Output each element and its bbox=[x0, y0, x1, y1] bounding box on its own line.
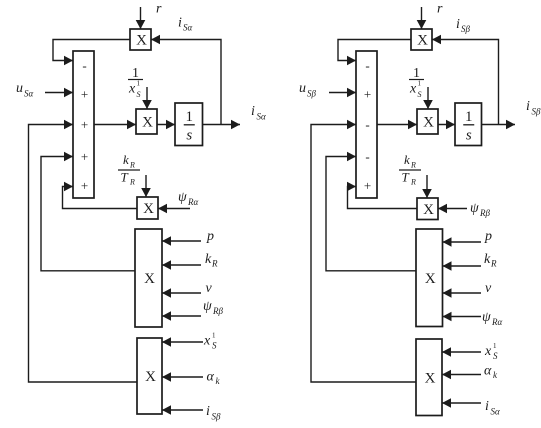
wire ψ_Rα into X4 (right) bbox=[443, 312, 482, 322]
svg-text:+: + bbox=[81, 87, 88, 102]
svg-text:Sα: Sα bbox=[257, 112, 267, 122]
svg-text:ψ: ψ bbox=[482, 310, 491, 325]
wire p into X4 (left) bbox=[162, 236, 201, 246]
svg-text:X: X bbox=[417, 33, 428, 49]
svg-text:+: + bbox=[364, 87, 371, 102]
svg-text:ν: ν bbox=[485, 281, 492, 296]
svg-text:i: i bbox=[485, 399, 489, 414]
wire X2 to integrator (left) bbox=[157, 120, 175, 130]
svg-text:u: u bbox=[299, 81, 306, 96]
svg-text:r: r bbox=[156, 2, 162, 17]
label ψ_Rα (right) bbox=[482, 310, 502, 327]
svg-text:Rβ: Rβ bbox=[479, 208, 490, 218]
wire X4 output to S1 input 4 (left) bbox=[41, 152, 135, 271]
summing block S1 (right) bbox=[356, 51, 377, 198]
label x_S' (right) bbox=[484, 342, 498, 361]
label 1/x_S' (left) bbox=[128, 66, 143, 99]
wire α_k into X5 (left) bbox=[162, 372, 203, 382]
integrator 1/s (left) bbox=[175, 103, 203, 146]
svg-text:-: - bbox=[365, 149, 369, 164]
svg-text:i: i bbox=[251, 104, 255, 119]
label x_S' (left) bbox=[203, 332, 217, 351]
svg-text:Rα: Rα bbox=[491, 317, 502, 327]
svg-text:R: R bbox=[129, 178, 135, 187]
svg-text:X: X bbox=[142, 115, 153, 131]
wire X5 output to S1 input 3 (right) bbox=[311, 120, 416, 382]
label p (left) bbox=[206, 229, 214, 244]
wire X3 output to S1 input 5 (left) bbox=[63, 182, 138, 209]
multiplier X5 (right) bbox=[416, 339, 442, 416]
svg-text:X: X bbox=[425, 370, 436, 386]
wire S1 output to X2 (left) bbox=[94, 120, 136, 130]
summing signs -+--+ (right) bbox=[364, 58, 371, 193]
label 1/x_S' (right) bbox=[409, 66, 424, 99]
svg-text:s: s bbox=[466, 128, 472, 144]
summing signs -++++ (left) bbox=[81, 58, 88, 193]
svg-text:S: S bbox=[418, 90, 422, 99]
label ν (left) bbox=[206, 281, 213, 296]
svg-text:r: r bbox=[437, 2, 443, 17]
label r (right) bbox=[437, 2, 443, 17]
multiplier X3 (right) bbox=[417, 198, 438, 220]
svg-text:X: X bbox=[423, 115, 434, 131]
svg-text:1: 1 bbox=[186, 109, 194, 125]
svg-text:R: R bbox=[211, 259, 218, 269]
svg-text:x: x bbox=[203, 334, 211, 349]
wire u_Sα into S1 input 2 (left) bbox=[45, 88, 73, 98]
label i_Sβ feedback (right) bbox=[456, 17, 471, 34]
label k_R/T_R (left) bbox=[118, 152, 140, 187]
svg-text:+: + bbox=[81, 117, 88, 132]
label i_Sα (right) bbox=[485, 399, 500, 417]
multiplier X1 left (r x i_Sα) bbox=[130, 29, 151, 50]
svg-text:k: k bbox=[484, 252, 491, 267]
svg-text:Rα: Rα bbox=[187, 197, 198, 207]
label α_k (left) bbox=[207, 370, 221, 387]
label α_k (right) bbox=[484, 364, 498, 381]
svg-text:R: R bbox=[410, 178, 416, 187]
svg-text:1: 1 bbox=[212, 332, 216, 340]
wire X3 output to S1 input 5 (right) bbox=[347, 182, 417, 209]
svg-text:ψ: ψ bbox=[178, 190, 187, 205]
svg-text:-: - bbox=[365, 58, 369, 73]
svg-text:p: p bbox=[206, 229, 214, 244]
wire i_Sα into X5 (right) bbox=[442, 398, 481, 408]
wire ψ_Rβ into X3 (right) bbox=[438, 204, 467, 214]
label k_R (left) bbox=[205, 252, 218, 269]
integrator 1/s (right) bbox=[455, 103, 482, 146]
multiplier X2 (right) bbox=[417, 109, 438, 134]
wire integrator output i_Sα (left) bbox=[203, 120, 241, 130]
svg-text:ψ: ψ bbox=[470, 201, 479, 216]
svg-text:i: i bbox=[178, 16, 182, 31]
label ψ_Rβ (right) bbox=[470, 201, 490, 218]
wire x_S' into X5 (left) bbox=[162, 337, 203, 347]
svg-text:i: i bbox=[206, 404, 210, 419]
svg-text:X: X bbox=[144, 271, 155, 287]
wire 1/x_S' into X2 (right) bbox=[423, 87, 433, 109]
svg-text:Rβ: Rβ bbox=[212, 306, 223, 316]
wire k_R into X4 (right) bbox=[443, 261, 482, 271]
svg-text:Sα: Sα bbox=[183, 23, 193, 33]
svg-text:X: X bbox=[136, 33, 147, 49]
wire feedback i_Sα into X1 (left) bbox=[151, 35, 221, 125]
svg-text:-: - bbox=[365, 117, 369, 132]
svg-text:k: k bbox=[123, 152, 129, 167]
svg-text:X: X bbox=[143, 201, 154, 217]
svg-text:R: R bbox=[410, 161, 416, 170]
svg-text:+: + bbox=[81, 178, 88, 193]
svg-text:x: x bbox=[409, 82, 417, 97]
svg-text:u: u bbox=[16, 81, 23, 96]
svg-text:Sβ: Sβ bbox=[461, 24, 471, 34]
wire u_Sβ into S1 input 2 (right) bbox=[329, 88, 356, 98]
label i_Sβ output (right) bbox=[526, 99, 541, 117]
svg-text:1: 1 bbox=[137, 80, 141, 88]
svg-text:Sα: Sα bbox=[24, 89, 34, 99]
wire X1 output to S1 input 1 (right) bbox=[338, 40, 411, 66]
wire ψ_Rα into X3 (left) bbox=[158, 204, 190, 214]
multiplier X2 (left) bbox=[136, 109, 157, 134]
svg-text:p: p bbox=[484, 229, 492, 244]
svg-text:Sβ: Sβ bbox=[307, 89, 317, 99]
svg-text:T: T bbox=[121, 170, 129, 185]
label k_R (right) bbox=[484, 252, 497, 269]
label i_Sα feedback (left) bbox=[178, 16, 193, 33]
label k_R/T_R (right) bbox=[399, 152, 421, 187]
svg-text:1: 1 bbox=[493, 342, 497, 350]
wire ν into X4 (right) bbox=[443, 288, 482, 298]
wire r into X1 (left) bbox=[136, 7, 146, 29]
multiplier X4 (right) bbox=[416, 229, 443, 327]
svg-text:T: T bbox=[402, 170, 410, 185]
svg-text:α: α bbox=[484, 364, 492, 379]
label p (right) bbox=[484, 229, 492, 244]
wire ψ_Rβ into X4 (left) bbox=[162, 311, 201, 321]
label r (left) bbox=[156, 2, 162, 17]
svg-text:i: i bbox=[456, 17, 460, 32]
summing block S1 (left) bbox=[73, 51, 94, 198]
svg-text:Sα: Sα bbox=[491, 407, 501, 417]
svg-text:i: i bbox=[526, 99, 530, 114]
wire k_R/T_R into X3 (left) bbox=[141, 175, 151, 197]
svg-text:S: S bbox=[493, 351, 498, 361]
multiplier X3 (left) bbox=[137, 197, 158, 219]
svg-text:k: k bbox=[205, 252, 212, 267]
svg-text:1: 1 bbox=[418, 80, 422, 88]
wire ν into X4 (left) bbox=[162, 288, 201, 298]
label i_Sα output (left) bbox=[251, 104, 266, 122]
wire r into X1 (right) bbox=[417, 7, 427, 29]
svg-text:k: k bbox=[404, 152, 410, 167]
wire integrator output i_Sβ (right) bbox=[482, 120, 516, 130]
wire X1 output to S1 input 1 (left) bbox=[53, 40, 130, 66]
svg-text:x: x bbox=[484, 344, 492, 359]
label u_Sα (left) bbox=[16, 81, 34, 99]
svg-text:+: + bbox=[364, 178, 371, 193]
svg-text:X: X bbox=[425, 271, 436, 287]
wire x_S' into X5 (right) bbox=[442, 347, 481, 357]
label i_Sβ (left) bbox=[206, 404, 221, 422]
wire k_R/T_R into X3 (right) bbox=[422, 175, 432, 198]
svg-text:Sβ: Sβ bbox=[212, 412, 222, 422]
svg-text:s: s bbox=[186, 128, 192, 144]
svg-text:+: + bbox=[81, 149, 88, 164]
svg-text:-: - bbox=[82, 58, 86, 73]
multiplier X4 (left) bbox=[135, 229, 162, 327]
wire p into X4 (right) bbox=[443, 237, 482, 247]
wire i_Sβ into X5 (left) bbox=[162, 405, 203, 415]
svg-text:ν: ν bbox=[206, 281, 213, 296]
multiplier X1 right (r x i_Sβ) bbox=[411, 29, 432, 50]
wire X2 to integrator (right) bbox=[438, 120, 455, 130]
wire S1 output to X2 (right) bbox=[377, 120, 417, 130]
label ψ_Rβ (left) bbox=[203, 299, 223, 316]
svg-text:x: x bbox=[128, 82, 136, 97]
svg-text:1: 1 bbox=[465, 109, 473, 125]
svg-text:α: α bbox=[207, 370, 215, 385]
svg-text:Sβ: Sβ bbox=[532, 107, 541, 117]
label ν (right) bbox=[485, 281, 492, 296]
svg-text:S: S bbox=[137, 90, 141, 99]
svg-text:S: S bbox=[212, 341, 217, 351]
wire X5 output to S1 input 3 (left) bbox=[29, 120, 138, 382]
wire α_k into X5 (right) bbox=[442, 370, 481, 380]
svg-text:X: X bbox=[145, 369, 156, 385]
label ψ_Rα (left) bbox=[178, 190, 198, 207]
svg-text:ψ: ψ bbox=[203, 299, 212, 314]
label u_Sβ (right) bbox=[299, 81, 317, 99]
svg-text:R: R bbox=[129, 161, 135, 170]
svg-text:R: R bbox=[490, 259, 497, 269]
wire 1/x_S' into X2 (left) bbox=[142, 87, 152, 109]
wire k_R into X4 (left) bbox=[162, 260, 201, 270]
wire X4 output to S1 input 4 (right) bbox=[326, 152, 416, 271]
svg-text:X: X bbox=[423, 202, 434, 218]
wire feedback i_Sβ into X1 (right) bbox=[432, 35, 499, 125]
multiplier X5 (left) bbox=[137, 338, 162, 414]
